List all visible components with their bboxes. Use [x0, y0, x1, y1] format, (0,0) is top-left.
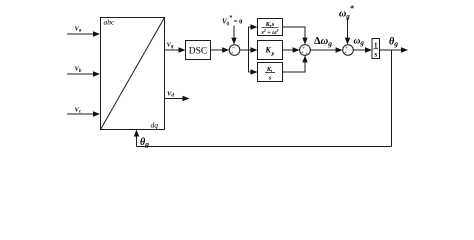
- svg-text:Vb: Vb: [75, 66, 82, 74]
- branch vertical wire: [248, 27, 250, 72]
- svg-text:abc: abc: [104, 18, 116, 27]
- svg-text:θg: θg: [140, 137, 149, 149]
- svg-text:Ki: Ki: [266, 66, 273, 73]
- svg-text:+: +: [301, 50, 304, 56]
- resonant block Kr s/(s2+w2): [258, 19, 283, 36]
- wire Vb input: [67, 71, 100, 76]
- svg-text:K: K: [264, 46, 271, 55]
- svg-text:+: +: [230, 50, 233, 56]
- svg-text:Krs: Krs: [265, 21, 275, 28]
- svg-text:Vd: Vd: [167, 90, 174, 98]
- wire DSC to summer 1: [211, 47, 230, 52]
- svg-text:Vq: Vq: [167, 42, 174, 50]
- wire Va input: [67, 31, 100, 36]
- integral block Ki/s: [258, 63, 283, 82]
- wire Vq* reference into summer 1: [231, 26, 236, 45]
- feedback wire right vertical: [391, 50, 393, 147]
- wire Ki block to summer 2 bottom: [283, 55, 308, 72]
- svg-text:+: +: [305, 52, 308, 58]
- transform block abc to dq: [101, 18, 165, 130]
- integrator block 1/s: [372, 39, 380, 59]
- svg-text:s: s: [268, 75, 272, 82]
- wire resonant block to summer 2 top: [283, 27, 308, 45]
- proportional block Kp: [258, 41, 283, 60]
- wire Vq output of transform: [165, 47, 186, 52]
- svg-text:θg: θg: [389, 36, 398, 48]
- feedback wire left vertical into transform block: [134, 130, 139, 147]
- wire into Kp block: [249, 47, 258, 52]
- wire Vc input: [67, 111, 100, 116]
- svg-text:Vc: Vc: [75, 107, 82, 115]
- wire Vd output stub: [165, 96, 190, 101]
- svg-text:DSC: DSC: [189, 46, 207, 56]
- svg-text:s2 + ω2: s2 + ω2: [260, 28, 278, 36]
- wire into resonant block: [249, 24, 258, 29]
- wire Kp block to summer 2 left: [283, 47, 300, 52]
- svg-text:dq: dq: [151, 121, 159, 130]
- wire omega g star into summer 3: [345, 19, 350, 45]
- wire theta g output: [380, 47, 409, 52]
- svg-text:p: p: [271, 51, 275, 57]
- svg-text:Δωg: Δωg: [314, 36, 332, 48]
- DSC block: [186, 41, 211, 60]
- wire summer 1 output to branch node: [240, 49, 249, 51]
- svg-text:Vq* = 0: Vq* = 0: [222, 14, 242, 26]
- summing junction 3: [343, 45, 354, 56]
- svg-text:s: s: [374, 51, 377, 59]
- svg-text:+: +: [344, 50, 347, 56]
- diagonal of transform block: [101, 18, 165, 130]
- feedback wire bottom horizontal: [137, 146, 392, 148]
- svg-text:ωg: ωg: [354, 37, 365, 48]
- wire summer 2 to summer 3: [310, 47, 342, 52]
- svg-text:ωg*: ωg*: [339, 4, 355, 21]
- summing junction 1: [229, 45, 240, 56]
- summing junction 2: [300, 45, 311, 56]
- wire into Ki block: [249, 69, 258, 74]
- svg-text:Va: Va: [75, 26, 82, 34]
- wire summer 3 to integrator: [353, 47, 372, 52]
